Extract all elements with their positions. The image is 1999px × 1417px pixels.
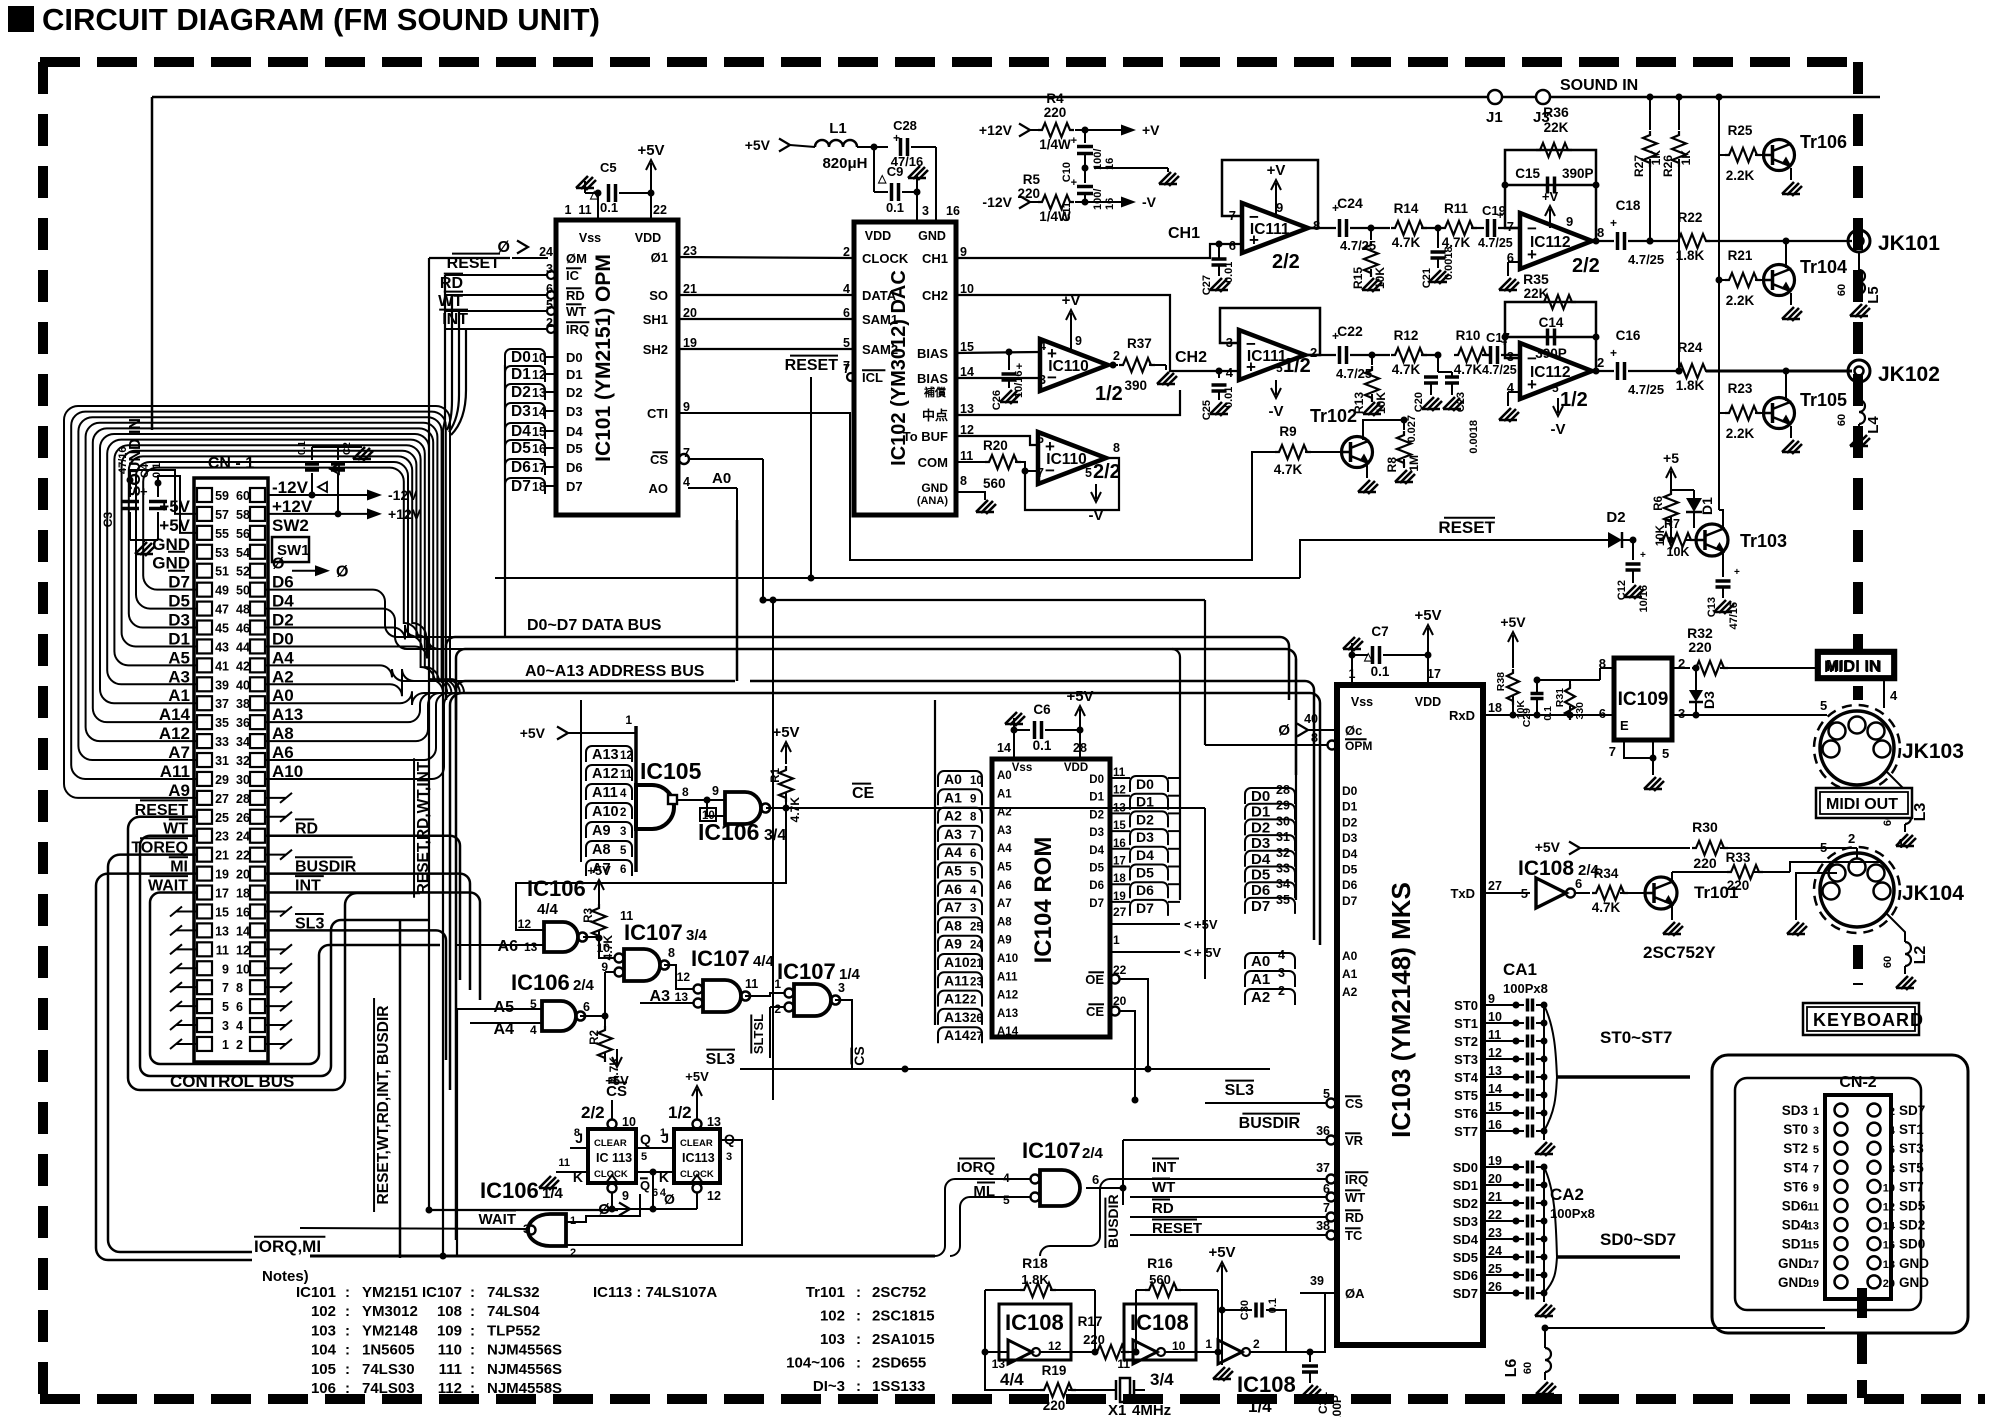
svg-text:5: 5 [222, 1000, 229, 1014]
svg-text:R38: R38 [1495, 672, 1507, 691]
svg-text:D4: D4 [566, 424, 583, 439]
svg-text:L3: L3 [1912, 803, 1929, 822]
RxD network R38 10K C29 R31 330 [1483, 614, 1614, 727]
svg-text:CH2: CH2 [922, 288, 948, 303]
connector CN-2 [1770, 1074, 1929, 1299]
resistor R5 220 1/4W [982, 172, 1156, 224]
svg-text:NJM4556S: NJM4556S [487, 1361, 562, 1378]
svg-text:SD1: SD1 [1782, 1237, 1809, 1252]
transistor Tr102 with resistor R9 4.7K [1274, 406, 1404, 494]
svg-text:IC101 (YM2151) OPM: IC101 (YM2151) OPM [592, 254, 615, 462]
svg-text:+ 5V: + 5V [1194, 945, 1221, 960]
svg-text:10: 10 [1883, 1182, 1895, 1194]
IC104 data pin labels D0-D7 [1089, 649, 1180, 916]
svg-text:16: 16 [1883, 1240, 1895, 1252]
op-amp IC112 1/2 [1499, 343, 1604, 438]
svg-text:13: 13 [215, 924, 229, 938]
svg-text:102: 102 [311, 1303, 336, 1320]
capacitor C16 4.7/25 [1592, 328, 1664, 397]
svg-text:A9: A9 [592, 823, 611, 839]
svg-text:ST7: ST7 [1454, 1124, 1478, 1139]
IC103 D0-D7 input labels [1245, 659, 1358, 915]
svg-text:+: + [1640, 550, 1646, 561]
svg-text:4: 4 [1890, 688, 1898, 703]
svg-text:CLOCK: CLOCK [594, 1169, 628, 1180]
svg-text:C24: C24 [1337, 195, 1363, 211]
svg-text:7: 7 [970, 830, 976, 842]
svg-text:SO: SO [649, 288, 668, 303]
svg-text:390P: 390P [1535, 346, 1567, 361]
CN-2 outer wire loops [1690, 1055, 1968, 1333]
transistor Tr103 [1694, 524, 1787, 568]
svg-text:A11: A11 [944, 972, 969, 988]
svg-text:2/4: 2/4 [1082, 1145, 1104, 1162]
svg-text:6: 6 [1575, 876, 1582, 891]
svg-text:22K: 22K [1524, 286, 1549, 301]
svg-text:5: 5 [970, 867, 977, 879]
svg-text:D3: D3 [566, 404, 583, 419]
svg-text:39: 39 [1310, 1274, 1324, 1288]
resistor R14 4.7K [1371, 201, 1438, 250]
svg-text:A2: A2 [1251, 989, 1270, 1006]
svg-text:2: 2 [1889, 1106, 1895, 1118]
svg-text:IC113: IC113 [682, 1151, 715, 1165]
svg-text:0.1: 0.1 [1033, 738, 1052, 753]
svg-text:330: 330 [1574, 702, 1586, 720]
svg-text:5: 5 [1662, 746, 1669, 761]
resistor R32 220 diode D3 [1672, 625, 1898, 719]
svg-text:VDD: VDD [635, 231, 661, 245]
svg-text:SD6: SD6 [1453, 1268, 1478, 1283]
svg-text:Tr101: Tr101 [1694, 883, 1738, 902]
svg-text:30: 30 [236, 773, 250, 787]
svg-text:R1: R1 [770, 767, 782, 782]
svg-text:8: 8 [668, 946, 675, 960]
svg-text:16: 16 [1488, 1118, 1502, 1132]
svg-text:SOUND IN: SOUND IN [1560, 77, 1638, 94]
svg-text:A8: A8 [592, 842, 611, 858]
svg-text:100/: 100/ [1092, 189, 1104, 210]
svg-text:IC107: IC107 [777, 959, 836, 984]
svg-text:IC107: IC107 [691, 946, 750, 971]
svg-text:A10: A10 [592, 804, 619, 820]
svg-text:22K: 22K [1544, 120, 1569, 135]
svg-text:D7: D7 [566, 479, 583, 494]
svg-text:44: 44 [236, 640, 250, 654]
IC101 data input label brackets D0-D7 [505, 349, 556, 637]
svg-text:43: 43 [215, 640, 229, 654]
svg-text:A0~A13 ADDRESS BUS: A0~A13 ADDRESS BUS [525, 663, 705, 680]
svg-text:A1: A1 [1251, 971, 1270, 988]
svg-text:36: 36 [236, 716, 250, 730]
IC102 left pins [785, 245, 909, 385]
svg-text:D4: D4 [1251, 851, 1271, 868]
CH2 wire and capacitor C25 0.01 [956, 295, 1239, 420]
IC103 SD0-SD7 pins [1453, 1154, 1510, 1301]
diode D2 [1606, 509, 1633, 548]
IC106 4/4 feedback wire [516, 808, 786, 930]
svg-text:23: 23 [683, 244, 697, 258]
svg-text:R37: R37 [1127, 336, 1152, 351]
wire Tr103 collector to mute line [1719, 413, 1723, 527]
svg-text:3: 3 [838, 981, 845, 995]
svg-text:17: 17 [532, 461, 546, 475]
capacitors C1 C2 at -12V/+12V [268, 441, 422, 522]
svg-text:10: 10 [970, 775, 983, 787]
svg-text:A0: A0 [944, 771, 962, 787]
capacitor array CA1 100Px8 [1503, 960, 1555, 1156]
svg-text:C9: C9 [887, 164, 904, 179]
svg-text:CH2: CH2 [1175, 349, 1207, 366]
svg-text:GND: GND [918, 229, 946, 243]
svg-text:Vss: Vss [1351, 695, 1373, 709]
svg-text:220: 220 [1044, 105, 1067, 120]
svg-text:D3: D3 [1089, 827, 1104, 839]
IC IC102 YM3012 DAC [854, 204, 960, 515]
svg-text:6: 6 [583, 1000, 590, 1014]
svg-text:D0: D0 [1136, 776, 1154, 792]
svg-text:A1: A1 [997, 788, 1012, 800]
svg-text:IC105: IC105 [640, 758, 702, 784]
svg-text:R6: R6 [1653, 496, 1665, 511]
svg-text:4.7/25: 4.7/25 [1478, 236, 1513, 250]
capacitor C20 0.027 and C23 0.0018 [1406, 352, 1480, 454]
svg-text:D7: D7 [1342, 894, 1358, 908]
svg-text:4: 4 [620, 788, 627, 800]
svg-text:D5: D5 [1251, 867, 1270, 884]
svg-text:SD3: SD3 [1453, 1214, 1478, 1229]
svg-text:RD: RD [1152, 1200, 1174, 1217]
svg-text:+: + [1734, 567, 1740, 578]
svg-text:4: 4 [1889, 1125, 1896, 1137]
svg-text:R5: R5 [1023, 172, 1041, 187]
svg-text:IC113 : 74LS107A: IC113 : 74LS107A [593, 1284, 717, 1301]
svg-text:52: 52 [236, 565, 250, 579]
svg-text:2: 2 [1310, 345, 1317, 360]
svg-text::: : [345, 1361, 350, 1378]
svg-text:20: 20 [1883, 1278, 1895, 1290]
svg-text:11: 11 [1488, 1028, 1501, 1042]
svg-text:21: 21 [215, 849, 229, 863]
svg-text:CH1: CH1 [922, 251, 948, 266]
svg-text:25: 25 [970, 921, 983, 933]
svg-text:D0: D0 [1089, 774, 1104, 786]
svg-text:R35: R35 [1523, 271, 1549, 287]
svg-text:R12: R12 [1394, 328, 1419, 343]
svg-text:A13: A13 [997, 1008, 1018, 1020]
svg-text:A5: A5 [997, 862, 1012, 874]
capacitor C4 0.1 [139, 463, 167, 509]
svg-text:IRQ: IRQ [566, 322, 589, 337]
svg-text:INT: INT [1152, 1159, 1176, 1176]
svg-text:A12: A12 [997, 990, 1018, 1002]
SD0-SD7 bus to CN-2 [1544, 1167, 1680, 1293]
svg-text:COM: COM [918, 455, 948, 470]
svg-text:13: 13 [992, 1357, 1006, 1371]
svg-text:D1: D1 [1251, 804, 1270, 821]
IC IC104 ROM [992, 741, 1110, 1037]
svg-text:102: 102 [820, 1308, 845, 1325]
svg-text:4.7K: 4.7K [1454, 362, 1483, 377]
svg-text:IC108: IC108 [1005, 1310, 1064, 1335]
svg-text:4.7K: 4.7K [1392, 235, 1421, 250]
svg-text:SL3: SL3 [706, 1051, 735, 1068]
svg-text:13: 13 [1488, 1064, 1502, 1078]
svg-text:C13: C13 [1706, 597, 1718, 617]
svg-text:60: 60 [1882, 956, 1894, 968]
svg-text:3/4: 3/4 [686, 927, 708, 944]
svg-text:24: 24 [970, 940, 983, 952]
svg-text::: : [345, 1380, 350, 1397]
svg-text:54: 54 [236, 546, 250, 560]
svg-text:Tr105: Tr105 [1800, 390, 1847, 410]
wire Tr102 drive from CTI [678, 413, 1275, 560]
svg-text:4.7/25: 4.7/25 [1628, 252, 1664, 267]
svg-text:1SS133: 1SS133 [872, 1378, 925, 1395]
svg-text:Øc: Øc [1345, 723, 1362, 738]
svg-text:R23: R23 [1728, 381, 1753, 396]
svg-text:D5: D5 [566, 441, 583, 456]
svg-text:1: 1 [1113, 933, 1120, 947]
inductor L4 [1836, 382, 1882, 448]
diode D1 [1671, 490, 1715, 528]
svg-text:2: 2 [570, 1247, 576, 1259]
capacitor C30 0.1 and +5V [1208, 1244, 1286, 1381]
svg-text:2: 2 [1113, 349, 1120, 363]
svg-text:21: 21 [970, 958, 983, 970]
svg-text:R19: R19 [1042, 1363, 1067, 1378]
svg-text:Vss: Vss [1012, 762, 1032, 774]
resistor R36 22K feedback [1505, 104, 1596, 241]
CN-1 right pin labels [265, 497, 357, 1049]
svg-text::: : [345, 1342, 350, 1359]
CN-1 right row wires to buses [266, 590, 480, 779]
svg-text:Vss: Vss [579, 231, 601, 245]
svg-text:D6: D6 [1342, 878, 1358, 892]
svg-text:C14: C14 [1539, 315, 1564, 330]
svg-text:L1: L1 [829, 120, 847, 137]
svg-text:26: 26 [970, 1013, 983, 1025]
TxD wire to IC108 [1483, 886, 1530, 893]
svg-text:C22: C22 [1337, 323, 1363, 339]
svg-text:<: < [1184, 945, 1192, 960]
resistor R8 1M [1385, 417, 1421, 485]
svg-text:1: 1 [1205, 1337, 1212, 1351]
svg-text:60: 60 [1836, 414, 1848, 426]
svg-text:JK103: JK103 [1902, 740, 1964, 763]
svg-text:27: 27 [970, 1031, 983, 1043]
svg-text:A9: A9 [997, 935, 1012, 947]
svg-text:14: 14 [997, 741, 1011, 755]
svg-text:7: 7 [222, 981, 229, 995]
svg-text:0.0018: 0.0018 [1468, 420, 1480, 454]
svg-text:+V: +V [1267, 162, 1286, 179]
svg-text:1.8K: 1.8K [1021, 1272, 1049, 1287]
svg-text:TC: TC [1345, 1228, 1363, 1243]
IC101 left pin labels [539, 245, 589, 494]
svg-text:59: 59 [215, 489, 229, 503]
svg-text:+5V: +5V [1414, 607, 1441, 624]
svg-text:100P: 100P [1330, 1395, 1344, 1417]
svg-text:MIDI OUT: MIDI OUT [1826, 796, 1898, 813]
svg-text:CS: CS [851, 1046, 867, 1065]
svg-text:2: 2 [774, 1002, 781, 1016]
svg-text:23: 23 [215, 830, 229, 844]
svg-text:D5: D5 [1089, 863, 1104, 875]
resistor R20 560 [956, 438, 1038, 491]
svg-text:A10: A10 [997, 953, 1018, 965]
resistor R24 1.8K [1650, 340, 1852, 393]
svg-text:GND: GND [1778, 1275, 1808, 1290]
svg-text:SL3: SL3 [1225, 1082, 1254, 1099]
svg-text:R17: R17 [1078, 1314, 1103, 1329]
data bus D0-D7 wires [446, 617, 1296, 775]
svg-text:A7: A7 [944, 899, 962, 915]
svg-text:SD4: SD4 [1453, 1232, 1479, 1247]
svg-text:6: 6 [1092, 1172, 1099, 1187]
svg-text:+: + [1071, 177, 1077, 189]
capacitor C12 10/16 [1616, 537, 1650, 613]
svg-text:C27: C27 [1201, 275, 1213, 295]
svg-text:1K: 1K [1679, 150, 1693, 166]
svg-text:5: 5 [1085, 466, 1092, 480]
svg-text:D3: D3 [1342, 831, 1358, 845]
svg-text:C7: C7 [1371, 624, 1388, 639]
svg-text:C15: C15 [1515, 166, 1540, 181]
svg-text:SD5: SD5 [1453, 1250, 1478, 1265]
svg-text:2.2K: 2.2K [1726, 293, 1755, 308]
svg-text:2/2: 2/2 [581, 1103, 605, 1122]
gate IC107 2/4 [935, 1138, 1127, 1256]
svg-text:IC106: IC106 [698, 819, 759, 845]
svg-text:IC112: IC112 [1530, 364, 1571, 381]
svg-text:CE: CE [852, 785, 875, 802]
svg-text:12: 12 [236, 943, 250, 957]
svg-text:Tr106: Tr106 [1800, 132, 1847, 152]
wires +5V GND pins to caps [127, 470, 197, 571]
svg-text:6: 6 [1037, 432, 1044, 446]
svg-text:R27: R27 [1632, 155, 1646, 177]
svg-text:SH2: SH2 [643, 342, 668, 357]
svg-text:103: 103 [820, 1331, 845, 1348]
svg-text:IC106: IC106 [527, 876, 586, 901]
svg-text:110: 110 [438, 1342, 462, 1359]
svg-text:R26: R26 [1661, 155, 1675, 177]
svg-text:9: 9 [683, 400, 690, 414]
svg-text:CLEAR: CLEAR [594, 1138, 627, 1149]
svg-text:2: 2 [970, 995, 976, 1007]
svg-text:2: 2 [1253, 1337, 1260, 1351]
svg-text:RxD: RxD [1449, 708, 1475, 723]
svg-text:CS: CS [1345, 1096, 1363, 1111]
svg-text:9: 9 [1276, 200, 1283, 215]
JK104 ground wire [1787, 870, 1837, 936]
svg-text:D6: D6 [511, 459, 531, 476]
KEYBOARD label [1803, 1003, 1924, 1035]
svg-text:13: 13 [524, 940, 538, 954]
svg-text:15: 15 [215, 905, 229, 919]
capacitor C17 4.7/25 [1482, 330, 1520, 377]
svg-text:R2: R2 [589, 1030, 601, 1045]
svg-text:R21: R21 [1728, 248, 1753, 263]
svg-text:A12: A12 [592, 766, 619, 782]
svg-text:3: 3 [970, 903, 976, 915]
svg-text:Notes): Notes) [262, 1268, 309, 1285]
svg-text:27: 27 [215, 792, 229, 806]
resistor R19 220 [985, 1352, 1105, 1413]
wire C20 node to R8 [1404, 372, 1438, 420]
svg-text:SD3: SD3 [1782, 1103, 1809, 1118]
svg-text:D5: D5 [1136, 865, 1154, 881]
svg-text:26: 26 [236, 811, 250, 825]
svg-text:11: 11 [216, 943, 229, 957]
svg-text:3: 3 [922, 204, 929, 218]
svg-text:20: 20 [1488, 1172, 1502, 1186]
svg-text:L6: L6 [1503, 1359, 1520, 1378]
svg-text:9: 9 [222, 962, 229, 976]
connector CN-1 [194, 455, 268, 1062]
svg-text:BIAS: BIAS [917, 371, 948, 386]
SOUND IN vertical wire [127, 97, 152, 496]
svg-text:1: 1 [625, 713, 632, 727]
svg-text:Q: Q [640, 1131, 651, 1147]
svg-text:+5V: +5V [1066, 688, 1093, 705]
svg-text:13: 13 [532, 386, 546, 400]
capacitor C18 4.7/25 [1592, 198, 1664, 267]
svg-text:2SC1815: 2SC1815 [872, 1308, 935, 1325]
svg-text:TxD: TxD [1450, 886, 1475, 901]
svg-text:NJM4556S: NJM4556S [487, 1342, 562, 1359]
svg-text:C18: C18 [1616, 198, 1641, 213]
svg-text:YM2151: YM2151 [362, 1284, 418, 1301]
svg-text:R20: R20 [983, 438, 1008, 453]
transistor Tr105 with resistor R23 2.2K [1719, 368, 1847, 455]
IC109 ground wires [1609, 740, 1669, 791]
svg-text:13: 13 [675, 990, 689, 1004]
svg-text:19: 19 [215, 868, 229, 882]
svg-text:4.7K: 4.7K [788, 797, 802, 823]
svg-text:37: 37 [1316, 1161, 1330, 1175]
svg-text:0.1: 0.1 [1371, 664, 1390, 679]
svg-text:1.8K: 1.8K [1676, 248, 1705, 263]
svg-text:IC108: IC108 [1518, 857, 1574, 880]
svg-text:4: 4 [236, 1019, 243, 1033]
svg-text:3: 3 [1678, 706, 1685, 721]
svg-text:11: 11 [960, 449, 973, 463]
svg-text:CIRCUIT DIAGRAM (FM SOUND UNIT: CIRCUIT DIAGRAM (FM SOUND UNIT) [42, 2, 600, 37]
MIDI IN label [1818, 652, 1894, 678]
svg-text:55: 55 [215, 527, 229, 541]
svg-text:220: 220 [1083, 1332, 1105, 1347]
svg-text:RD: RD [566, 288, 585, 303]
svg-text:31: 31 [1276, 830, 1290, 844]
svg-text:A0: A0 [997, 770, 1012, 782]
capacitor C14 390P feedback 2 [1502, 315, 1600, 361]
svg-text:NJM4558S: NJM4558S [487, 1380, 562, 1397]
svg-text:12: 12 [1048, 1339, 1062, 1353]
IC IC101 YM2151 OPM [556, 203, 678, 515]
svg-text:ST5: ST5 [1454, 1088, 1478, 1103]
IC103 clock inputs [1205, 712, 1372, 753]
svg-text::: : [470, 1380, 475, 1397]
resistor R15 10K [1351, 225, 1387, 293]
svg-text:4/4: 4/4 [1000, 1370, 1024, 1389]
svg-text:D1: D1 [1089, 792, 1104, 804]
svg-text:RD: RD [440, 275, 463, 292]
svg-text:40: 40 [236, 678, 250, 692]
svg-text:CH1: CH1 [1168, 225, 1200, 242]
svg-text:6: 6 [236, 1000, 243, 1014]
